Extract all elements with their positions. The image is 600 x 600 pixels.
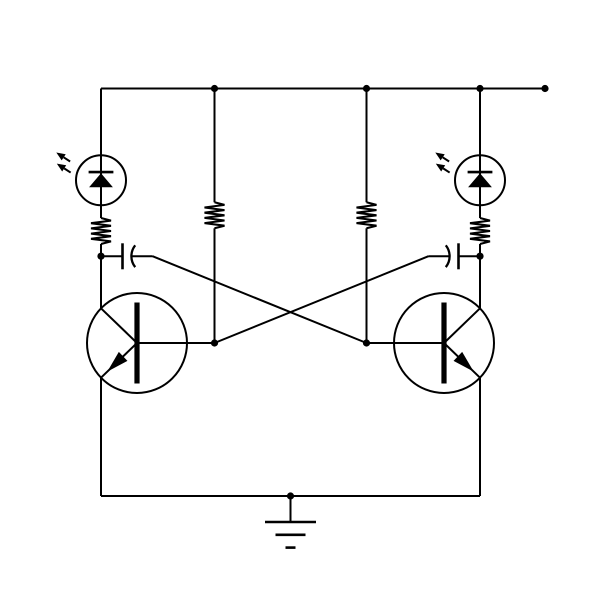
capacitor C2 curved plate bbox=[446, 245, 450, 267]
transistor Q1 bbox=[87, 293, 215, 393]
wire C2 curved plate lead bbox=[429, 255, 450, 257]
wire Q2 emitter down to bottom rail bbox=[479, 378, 481, 496]
wire mid-right branch from top rail to resistor R3 bbox=[366, 89, 368, 203]
wire bottom rail bbox=[101, 495, 480, 497]
capacitor C1 curved plate bbox=[131, 245, 135, 267]
wire C1 to Q2 base node (cross-coupling diagonal) bbox=[153, 256, 367, 343]
ground bbox=[265, 496, 316, 548]
wire mid-left branch from top rail to resistor R2 bbox=[214, 89, 216, 203]
wire node D down to Q2 collector bbox=[479, 256, 481, 308]
node B junction Q1 base / R2 / C2 diagonal bbox=[211, 339, 218, 346]
LED D1 light arrows bbox=[56, 153, 70, 173]
node junction top rail / R2 bbox=[211, 85, 218, 92]
capacitor C2 flat plate bbox=[457, 243, 460, 269]
capacitor C1 flat plate bbox=[121, 243, 124, 269]
LED D2 bbox=[455, 155, 505, 205]
node A junction R1 / C1 / Q1 collector bbox=[97, 253, 104, 260]
LED D2 light arrows bbox=[435, 153, 449, 173]
transistor Q2 bbox=[367, 293, 495, 393]
wire R1 to node A bbox=[100, 244, 102, 256]
node C junction Q2 base / R3 / C1 diagonal bbox=[363, 339, 370, 346]
wire node A down to Q1 collector bbox=[100, 256, 102, 308]
wire R2 to Q1 base node bbox=[214, 228, 216, 343]
node D junction R4 / C2 / Q2 collector bbox=[476, 253, 483, 260]
wire C2 to Q1 base node (cross-coupling diagonal) bbox=[215, 256, 429, 343]
resistor R3 bbox=[357, 202, 377, 228]
LED D1 bbox=[76, 155, 126, 205]
resistor R2 bbox=[205, 202, 225, 228]
node junction top rail / R3 bbox=[363, 85, 370, 92]
node junction top rail / right branch bbox=[476, 85, 483, 92]
wire C1 curved plate lead bbox=[131, 255, 152, 257]
capacitor C1 lead from node A bbox=[101, 255, 123, 257]
node terminal top rail right end bbox=[541, 85, 548, 92]
wire top supply rail bbox=[101, 88, 545, 90]
capacitor C2 lead from node D bbox=[459, 255, 481, 257]
resistor R4 bbox=[470, 218, 490, 244]
wire right branch from top rail through LED D2 to resistor R4 bbox=[479, 89, 481, 219]
wire R3 to Q2 base node bbox=[366, 228, 368, 343]
resistor R1 bbox=[91, 218, 111, 244]
wire left branch from top rail through LED D1 to resistor R1 bbox=[100, 89, 102, 219]
wire R4 to node D bbox=[479, 244, 481, 256]
wire Q1 emitter down to bottom rail bbox=[100, 378, 102, 496]
node junction bottom rail / ground bbox=[287, 492, 294, 499]
